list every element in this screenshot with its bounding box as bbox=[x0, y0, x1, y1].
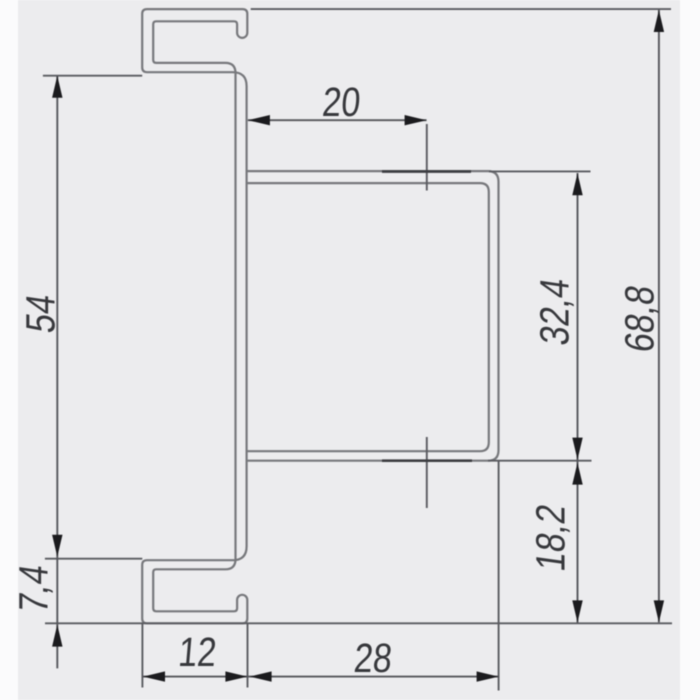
dimension line 68.8 vertical far right bbox=[658, 10, 660, 622]
arrowhead 18.2 up bbox=[572, 463, 582, 485]
arrowhead 20 right bbox=[405, 115, 427, 125]
reference line 20 dim upper segment bbox=[426, 124, 428, 191]
profile box chamber inner wall bbox=[247, 183, 489, 451]
dimension line 12 and 28 horizontal bottom bbox=[143, 676, 499, 678]
svg-text:54: 54 bbox=[19, 291, 64, 335]
svg-text:20: 20 bbox=[321, 80, 363, 126]
arrowhead 54 up bbox=[52, 76, 62, 98]
arrowhead 28 left bbox=[250, 671, 272, 681]
svg-text:12: 12 bbox=[177, 630, 219, 676]
extension line top edge to 68.8 dim bbox=[251, 8, 671, 10]
arrowhead 54 down bbox=[52, 535, 62, 557]
arrowhead 68.8 down bbox=[654, 600, 664, 622]
extension line box bottom right for 32.4/18.2 bbox=[488, 460, 592, 462]
extension line 54/7.4 boundary left bbox=[45, 558, 142, 560]
extension line 12 left below bbox=[141, 623, 143, 687]
arrowhead 18.2 down bbox=[572, 600, 582, 622]
profile main outline with top and bottom C-channels and web bbox=[142, 9, 247, 623]
svg-text:7,4: 7,4 bbox=[12, 562, 57, 616]
svg-text:28: 28 bbox=[352, 636, 394, 682]
arrowhead 28 right bbox=[477, 671, 499, 681]
extension line 28 right below bbox=[498, 461, 500, 691]
arrowhead 32.4 up bbox=[572, 173, 582, 195]
dimension line 20 horizontal bbox=[248, 119, 427, 121]
extension line box top right for 32.4 bbox=[489, 170, 591, 172]
dimension line 54 / 7.4 vertical left bbox=[56, 76, 58, 668]
arrowhead 68.8 up bbox=[654, 10, 664, 32]
svg-text:68,8: 68,8 bbox=[618, 282, 663, 355]
arrowhead 7.4 bottom outside up bbox=[52, 625, 62, 647]
arrowhead 32.4 down bbox=[572, 438, 582, 460]
reference tick on box bottom wall bbox=[382, 459, 472, 462]
svg-text:18,2: 18,2 bbox=[529, 501, 574, 574]
profile box chamber outer wall bbox=[247, 171, 499, 461]
extension line 12/28 boundary below bbox=[247, 623, 249, 687]
reference line 20 dim lower segment bbox=[426, 437, 428, 508]
dimension line 32.4 / 18.2 vertical right bbox=[577, 173, 579, 623]
svg-text:32,4: 32,4 bbox=[533, 275, 578, 348]
extension line 54 top left bbox=[43, 75, 142, 77]
arrowhead 12 right bbox=[225, 671, 247, 681]
arrowhead 12 left bbox=[143, 671, 165, 681]
extension line bottom edge full width bbox=[45, 622, 672, 624]
arrowhead 20 left bbox=[248, 115, 270, 125]
reference tick on box top wall bbox=[382, 170, 471, 173]
